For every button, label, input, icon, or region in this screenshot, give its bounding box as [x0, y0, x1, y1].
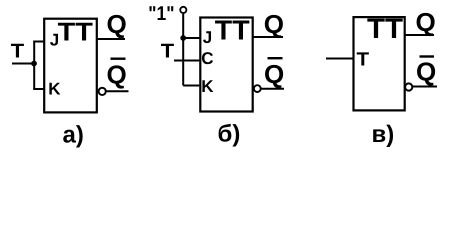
svg-text:а): а) [63, 122, 84, 149]
wire: notQ output (b) [261, 88, 284, 90]
wire: vertical branch joining J and K (a) [33, 42, 35, 90]
svg-text:Q: Q [264, 59, 284, 89]
inversion circle on notQ (b) [254, 85, 261, 92]
inversion circle on notQ (v) [405, 83, 412, 90]
flip-flop DD1 body (a) [44, 19, 97, 113]
overbar of notQ (a) [111, 58, 126, 60]
flip-flop DD3 body (v) [354, 17, 405, 110]
wire: Q output (b) [253, 36, 283, 38]
wire: T input lead (a) [12, 63, 35, 65]
svg-text:C: C [201, 49, 213, 68]
wire: Q output (a) [97, 38, 125, 40]
wire: Q output (v) [405, 34, 434, 36]
svg-text:"1": "1" [148, 3, 174, 25]
svg-text:Q: Q [107, 59, 127, 89]
svg-text:T: T [357, 50, 370, 71]
svg-text:K: K [201, 77, 214, 96]
junction dot on J line (b) [180, 35, 186, 41]
wire: T input lead (v) [326, 58, 355, 60]
wire: K input line (b) [183, 85, 200, 87]
svg-text:б): б) [218, 121, 241, 148]
svg-text:Q: Q [264, 9, 284, 39]
wire: J branch (a) [33, 41, 45, 43]
overbar of notQ (v) [420, 55, 435, 57]
svg-text:Q: Q [416, 57, 436, 87]
svg-text:J: J [203, 28, 212, 47]
svg-text:TT: TT [58, 19, 93, 47]
overbar of notQ (b) [268, 57, 283, 59]
svg-text:TT: TT [367, 13, 404, 45]
svg-text:K: K [48, 80, 61, 99]
wire: notQ output (a) [106, 90, 128, 92]
wire: T lead to C input (b) [174, 60, 201, 62]
wire: J input line (b) [183, 37, 200, 39]
flip-flop DD2 body (b) [200, 18, 252, 112]
wire: vertical from "1" terminal down to K line (b) [182, 14, 184, 86]
svg-text:Q: Q [107, 9, 127, 39]
svg-text:TT: TT [215, 15, 250, 46]
svg-text:T: T [11, 41, 24, 63]
wire: K branch (a) [33, 88, 45, 90]
junction dot (a) [31, 61, 37, 67]
wire: notQ output (v) [413, 86, 438, 88]
svg-text:в): в) [372, 121, 395, 148]
svg-text:Q: Q [416, 7, 436, 37]
svg-text:T: T [161, 41, 174, 63]
inversion circle on notQ (a) [99, 88, 106, 95]
terminal circle of "1" (b) [180, 7, 186, 13]
